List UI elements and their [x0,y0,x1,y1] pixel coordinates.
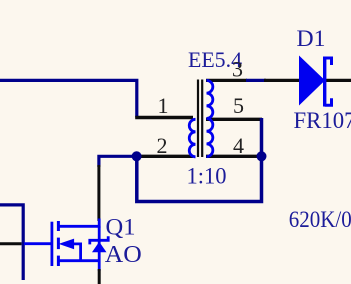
transformer T1 pin 5 line [206,118,262,121]
svg-text:Q1: Q1 [106,215,136,240]
svg-text:620K/0: 620K/0 [289,207,351,233]
transistor Q1 source lead [58,259,99,262]
wire: pin2 node left to Q1 drain [99,156,137,167]
svg-text:1:10: 1:10 [187,164,227,189]
transistor Q1 bulk arrow [59,239,81,261]
pin: off-sheet component pin into gate net (black) [0,242,22,245]
svg-text:5: 5 [233,93,244,118]
transistor Q1 gate bar [51,222,54,266]
wire: top-left horizontal rail into primary pin 1 [0,80,137,117]
diode D1 anode pin [264,79,300,82]
svg-text:4: 4 [233,133,244,158]
diode D1 body (triangle) [299,56,325,106]
transformer T1 secondary winding (right coil, 6 bumps) [207,80,213,156]
svg-text:AO: AO [105,242,142,268]
transformer T1 core [198,80,202,158]
svg-text:1: 1 [158,93,169,118]
transistor Q1 gate lead [24,242,51,245]
wire: secondary right vertical and bottom return loop [137,118,262,202]
transistor Q1 channel bar (3 segments) [57,221,60,266]
svg-text:2: 2 [157,133,168,158]
diode D1 cathode pin [326,79,351,82]
transistor Q1 drain lead [58,219,99,227]
node: junction dot at pin 4 [257,151,267,161]
node: junction dot at pin 2 [132,151,142,161]
transformer T1 pin 1 line [135,116,193,119]
wire: pin3 to diode anode [246,79,266,82]
wire: left edge rail down along x=23 [0,205,23,280]
transformer T1 primary winding (left coil, 3 bumps) [189,119,195,157]
transistor Q1 drain pin (black) [97,165,100,221]
transistor Q1 body diode (zener-style) [90,236,108,252]
svg-text:D1: D1 [297,26,326,51]
transistor Q1 source pin (black) [98,269,101,284]
svg-text:FR107: FR107 [294,108,351,133]
transformer T1 pin 4 line [206,155,262,158]
svg-text:3: 3 [232,56,243,81]
transformer T1 pin 2 line [137,155,194,158]
transistor Q1 body diode vertical [98,226,101,271]
transformer T1 pin 3 line [206,79,247,82]
diode D1 cathode bar with hooks [325,57,332,107]
